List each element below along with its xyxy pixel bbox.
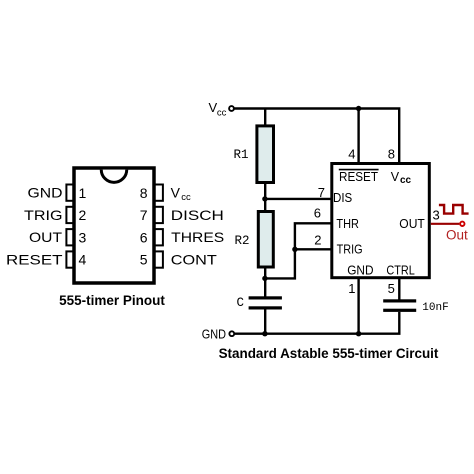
junction dot node A [262,196,267,201]
wire node B to capacitor C [264,278,266,297]
wire GND rail [235,333,401,335]
svg-text:GND: GND [347,262,373,277]
pin 3 pad [66,229,75,245]
svg-text:V: V [171,185,181,201]
svg-text:cc: cc [400,175,412,186]
pin 1 pad [66,185,75,201]
wire pin 5 to capacitor 10nF [398,278,400,301]
wire OUT pin 3 red [431,223,460,225]
svg-text:OUT: OUT [399,216,425,231]
pin 4 pad [66,251,75,267]
wire node A to DIS pin 7 [265,198,331,200]
svg-text:R1: R1 [233,148,248,162]
svg-text:OUT: OUT [29,229,62,245]
junction dot pin1 gnd [356,331,361,336]
wire 10nF to GND rail [398,312,400,334]
pin 2 pad [66,207,75,223]
capacitor C2 10nF top plate [383,299,416,302]
svg-text:7: 7 [318,185,325,200]
svg-text:CTRL: CTRL [386,262,414,277]
svg-text:V: V [391,170,400,184]
svg-text:4: 4 [348,146,355,161]
svg-text:cc: cc [217,107,227,118]
svg-text:TRIG: TRIG [24,207,63,223]
svg-text:R2: R2 [234,234,249,248]
resistor R2 [258,212,273,268]
IC body 555 pinout [74,168,154,283]
junction dot node B [262,276,267,281]
IC U1 box [332,164,430,278]
capacitor C2 10nF bottom plate [383,309,416,312]
svg-text:4: 4 [79,252,87,268]
svg-text:5: 5 [388,281,395,296]
wire node A to R2 [264,199,266,212]
terminal Vcc [229,106,234,111]
pin 8 label Vcc [171,185,191,204]
svg-text:2: 2 [314,232,321,247]
label Vcc pin 8 inside [391,170,412,186]
svg-text:RESET: RESET [339,169,378,184]
svg-text:10nF: 10nF [422,302,448,314]
junction dot C gnd [262,331,267,336]
svg-text:cc: cc [181,192,191,203]
pin 5 pad [154,251,163,267]
notch [101,170,127,183]
wire THR to vertical to node B [265,223,331,278]
svg-text:1: 1 [79,185,87,201]
svg-text:8: 8 [388,146,395,161]
svg-text:8: 8 [140,185,148,201]
wire R1 top [264,109,266,127]
svg-text:GND: GND [28,185,63,201]
net label Vcc [209,100,227,118]
svg-text:5: 5 [140,252,148,268]
label RESET with overline [339,169,379,184]
wire pin 1 [357,278,359,334]
svg-text:1: 1 [348,281,355,296]
svg-text:THRES: THRES [171,229,224,245]
svg-text:6: 6 [140,229,148,245]
pin 8 pad [154,185,163,201]
terminal Out [460,222,464,226]
svg-text:C: C [236,296,244,310]
svg-text:RESET: RESET [6,252,63,268]
capacitor C bottom plate [249,306,282,309]
svg-text:CONT: CONT [171,252,218,268]
wire pin 4 [357,109,359,164]
junction dot pin4 rail [356,106,361,111]
svg-text:7: 7 [140,207,148,223]
junction dot TRIG [292,247,297,252]
wire R2 bottom to node B [264,267,266,278]
svg-text:DIS: DIS [333,190,352,205]
wire R1 bottom [264,183,266,199]
svg-text:THR: THR [336,216,359,231]
svg-text:3: 3 [433,207,440,222]
svg-text:GND: GND [202,326,226,341]
wire C to GND rail [264,310,266,334]
pin 6 pad [154,229,163,245]
svg-text:Standard Astable 555-timer Cir: Standard Astable 555-timer Circuit [219,346,439,361]
wire TRIG pin 2 [295,248,331,250]
waveform symbol [439,205,469,214]
svg-text:DISCH: DISCH [171,207,224,223]
pin 7 pad [154,207,163,223]
svg-text:6: 6 [314,205,321,220]
svg-text:3: 3 [79,229,87,245]
terminal GND [229,331,234,336]
svg-text:2: 2 [79,207,87,223]
svg-text:555-timer Pinout: 555-timer Pinout [59,293,165,308]
wire Vcc rail to pin 8 [235,109,400,164]
capacitor C top plate [249,296,282,299]
resistor R1 [257,126,274,183]
svg-text:Out: Out [446,227,468,242]
svg-text:TRIG: TRIG [337,241,363,256]
